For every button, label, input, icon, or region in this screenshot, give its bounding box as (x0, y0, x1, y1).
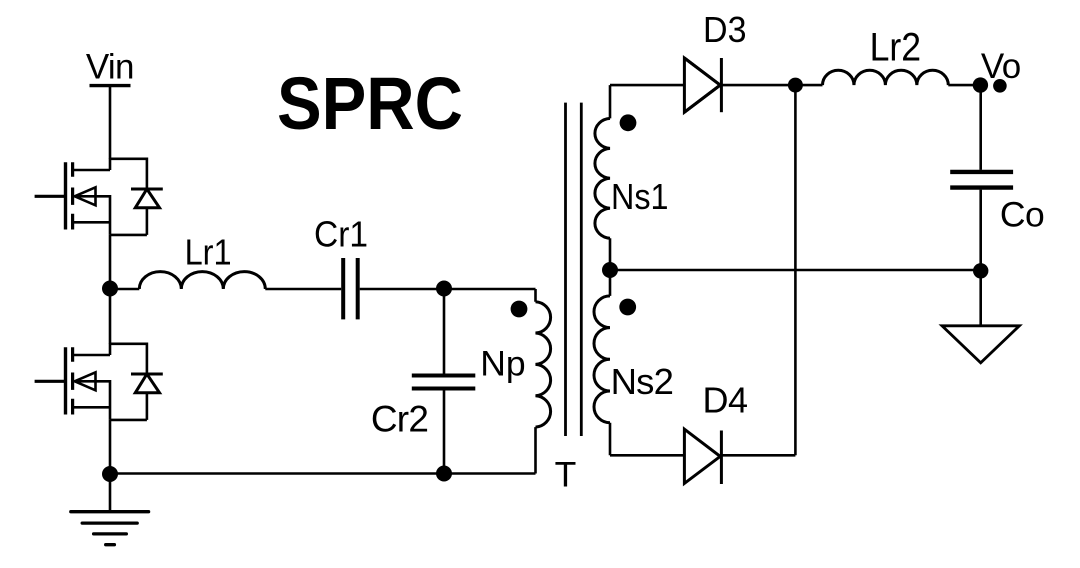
svg-text:Co: Co (1000, 195, 1044, 235)
svg-text:Vin: Vin (86, 47, 134, 86)
svg-text:Vo: Vo (981, 47, 1021, 86)
svg-text:D3: D3 (703, 9, 747, 50)
svg-text:T: T (555, 455, 577, 495)
svg-text:Np: Np (480, 343, 525, 383)
svg-text:Ns2: Ns2 (611, 361, 674, 402)
svg-text:Lr1: Lr1 (185, 232, 232, 273)
svg-text:Ns1: Ns1 (611, 176, 669, 217)
svg-text:Cr2: Cr2 (371, 399, 428, 440)
svg-text:SPRC: SPRC (277, 62, 463, 145)
svg-text:D4: D4 (703, 380, 748, 421)
svg-text:Lr2: Lr2 (870, 26, 922, 70)
svg-text:Cr1: Cr1 (314, 213, 368, 254)
